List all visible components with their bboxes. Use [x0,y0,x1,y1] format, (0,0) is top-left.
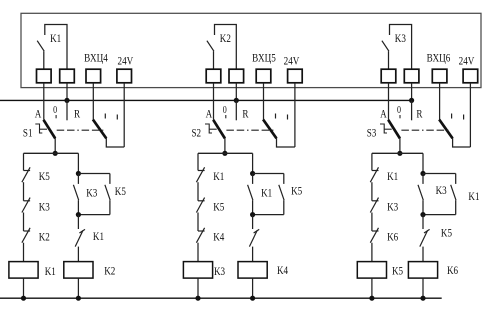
svg-text:K5: K5 [441,226,452,240]
svg-text:K3: K3 [395,31,406,45]
svg-text:K1: K1 [261,186,272,200]
svg-text:K2: K2 [104,264,115,278]
svg-text:K3: K3 [214,264,225,278]
svg-text:ВХЦ4: ВХЦ4 [84,50,108,64]
svg-text:K5: K5 [291,183,302,197]
svg-text:K2: K2 [220,31,231,45]
svg-text:K1: K1 [387,169,398,183]
svg-text:K1: K1 [50,31,61,45]
svg-text:K2: K2 [39,230,50,244]
svg-text:K5: K5 [392,264,403,278]
svg-text:0: 0 [397,105,401,116]
svg-text:ВХЦ5: ВХЦ5 [252,50,276,64]
svg-text:ВХЦ6: ВХЦ6 [427,50,451,64]
svg-text:24V: 24V [459,53,475,67]
svg-text:K4: K4 [213,230,224,244]
svg-text:K3: K3 [436,183,447,197]
svg-text:A: A [35,107,42,121]
svg-text:R: R [74,107,80,121]
svg-text:R: R [416,107,422,121]
svg-text:K1: K1 [468,189,479,203]
svg-text:24V: 24V [118,53,134,67]
svg-text:K5: K5 [213,199,224,213]
svg-text:K3: K3 [39,199,50,213]
svg-text:K5: K5 [115,184,126,198]
svg-text:R: R [242,107,248,121]
svg-text:K6: K6 [447,263,458,277]
svg-text:K1: K1 [213,169,224,183]
svg-text:K4: K4 [277,263,288,277]
svg-text:K1: K1 [93,229,104,243]
svg-text:K3: K3 [387,199,398,213]
svg-text:S3: S3 [367,125,377,139]
svg-text:K6: K6 [387,230,398,244]
svg-text:S2: S2 [192,125,202,139]
svg-text:A: A [380,107,387,121]
svg-text:0: 0 [53,105,57,116]
svg-text:A: A [206,107,213,121]
svg-text:0: 0 [223,105,227,116]
svg-text:K5: K5 [39,169,50,183]
svg-text:K3: K3 [86,186,97,200]
svg-text:24V: 24V [284,53,300,67]
svg-text:K1: K1 [45,264,56,278]
svg-text:S1: S1 [23,125,33,139]
